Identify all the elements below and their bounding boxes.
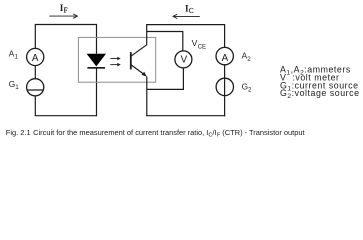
label G1 — [9, 79, 19, 91]
voltmeter V — [175, 51, 192, 68]
svg-text:C: C — [189, 7, 194, 15]
ammeter A2 — [216, 47, 233, 64]
light arrow upper — [110, 57, 120, 61]
wire: left loop bottom rail — [35, 115, 97, 117]
label IC current — [185, 3, 194, 15]
svg-text:CE: CE — [198, 44, 206, 50]
ammeter A1 — [27, 48, 44, 65]
svg-text:1: 1 — [15, 54, 19, 61]
LED D1 (emitting diode) — [87, 54, 106, 68]
wire: voltmeter bottom return to emitter node — [147, 68, 184, 90]
phototransistor Q1 collector lead — [131, 45, 147, 57]
wire: A2 bottom through G2 to bottom rail — [224, 65, 226, 117]
svg-text:2: 2 — [247, 56, 251, 63]
voltage source G2 — [216, 78, 233, 95]
svg-text:F: F — [64, 7, 68, 15]
label IF current — [60, 3, 68, 15]
legend line 2: V volt meter — [280, 72, 340, 82]
current source G1 — [27, 79, 44, 96]
label A1 — [9, 48, 19, 60]
wire: emitter to bottom rail — [146, 77, 148, 117]
svg-text:V: V — [181, 54, 188, 65]
svg-text:2: 2 — [248, 86, 252, 93]
svg-text:A: A — [222, 53, 229, 64]
svg-text:V: V — [192, 38, 198, 48]
phototransistor Q1 emitter lead with arrow — [131, 65, 147, 77]
legend line 3: G1 current source — [280, 80, 359, 92]
caption Fig. 2.1 — [6, 128, 306, 139]
wire: right loop bottom rail — [146, 115, 225, 117]
legend line 4: G2 voltage source — [280, 88, 360, 100]
arrow IF direction (right) — [49, 14, 77, 18]
label G2 — [242, 81, 252, 93]
label A2 — [242, 51, 252, 63]
phototransistor Q1 base bar — [130, 52, 132, 69]
svg-text:A: A — [32, 53, 39, 64]
svg-text:1: 1 — [15, 84, 19, 91]
wire: A1 bottom to G1 top — [34, 66, 36, 79]
legend line 1: A1,A2 ammeters — [280, 65, 351, 77]
optocoupler package box — [78, 37, 155, 82]
label VCE — [192, 38, 206, 50]
wire: G1 bottom to bottom rail — [34, 96, 36, 116]
arrow IC direction (left) — [173, 14, 200, 18]
wire: collector riser, top rail to A2 — [147, 25, 225, 48]
wire: A1 top to LED anode (left loop top rail) — [35, 25, 96, 54]
wire: LED cathode to bottom rail — [96, 68, 98, 116]
light arrow lower — [110, 63, 120, 67]
wire: branch to voltmeter top — [147, 32, 183, 52]
svg-text:Fig. 2.1: Fig. 2.1 — [6, 128, 31, 137]
